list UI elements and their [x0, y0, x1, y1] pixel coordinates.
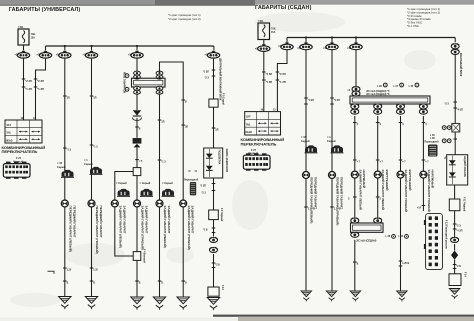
svg-text:B: B	[357, 263, 359, 265]
front clearance lamp right	[88, 200, 103, 254]
relay pin bottom-right	[156, 86, 163, 94]
scan top band	[0, 0, 474, 5]
combination switch (универсал)	[5, 118, 42, 143]
svg-text:ПЕРЕДНИЙ ГАБАРИТ: ПЕРЕДНИЙ ГАБАРИТ	[340, 177, 344, 209]
svg-text:*1 ЗП: *1 ЗП	[279, 80, 286, 84]
svg-text:× Серый: × Серый	[116, 181, 127, 185]
svg-text:1.25 B: 1.25 B	[308, 208, 315, 210]
svg-text:B: B	[139, 128, 141, 130]
junction F14	[208, 285, 224, 296]
svg-text:ПЕРЕДНИЙ ГАБАРИТ: ПЕРЕДНИЙ ГАБАРИТ	[99, 206, 103, 238]
combination switch (седан)	[245, 110, 281, 135]
relay terminals	[123, 72, 129, 93]
junction J1	[133, 168, 141, 176]
connector under fuse (седан)	[255, 44, 270, 51]
connector x1 gray (front right)	[84, 158, 103, 174]
svg-text:*1 ЗЛ: *1 ЗЛ	[308, 100, 314, 102]
svg-text:OFF: OFF	[7, 125, 12, 127]
svg-text:ЦЕНТРАЛЬНЫЙ МОНТАЖНЫЙ БЛОК: ЦЕНТРАЛЬНЫЙ МОНТАЖНЫЙ БЛОК	[219, 58, 222, 101]
svg-text:× 16: × 16	[301, 135, 307, 139]
svg-text:F 4 Боковой: F 4 Боковой	[143, 249, 146, 263]
J/C5 output pin	[351, 232, 359, 237]
connector to rear lamp RH outer	[425, 135, 440, 157]
svg-text:F 5 Серый: F 5 Серый	[222, 93, 225, 105]
svg-text:1.25: 1.25	[93, 269, 98, 271]
svg-text:НАРУЖНЫЙ: НАРУЖНЫЙ	[362, 170, 366, 188]
wire rear lamp s3	[399, 116, 407, 171]
wire down x213	[203, 59, 215, 99]
wire to relay pin	[136, 59, 138, 73]
svg-text:*6: *6	[443, 157, 445, 160]
svg-text:L 32: L 32	[399, 236, 404, 238]
svg-text:*3 З: *3 З	[445, 103, 450, 105]
front lamp left (седан)	[303, 172, 318, 224]
svg-text:× 1: × 1	[327, 135, 331, 139]
wire fuse to connector	[263, 40, 265, 46]
wire rear lamp s4	[422, 116, 430, 171]
connector bus right end	[205, 46, 222, 101]
relay pin top-left	[134, 71, 141, 79]
wire to switch pin 1	[22, 59, 32, 120]
svg-text:ЗЛ: ЗЛ	[161, 121, 164, 123]
connector on drop x332	[323, 43, 338, 51]
svg-text:1.25 B: 1.25 B	[402, 263, 409, 265]
svg-text:*1 ЗП: *1 ЗП	[266, 80, 273, 84]
svg-text:*1 З: *1 З	[67, 149, 72, 151]
connector gray (rear right)	[140, 181, 154, 197]
svg-text:L 38: L 38	[377, 86, 382, 88]
svg-text:× 7: × 7	[425, 160, 429, 163]
svg-text:F 27: F 27	[16, 156, 22, 160]
svg-text:F 14: F 14	[221, 285, 224, 290]
svg-text:ГАБ.: ГАБ.	[19, 26, 25, 29]
wire to J/C5	[348, 178, 357, 220]
combination rear lamp unit	[443, 155, 468, 185]
J/C4 output pins 4	[419, 104, 427, 115]
svg-text:F 27: F 27	[251, 148, 257, 152]
side marker resistor	[209, 93, 225, 107]
svg-text:*2 Б: *2 Б	[456, 266, 461, 268]
svg-text:ЗАДНИЙ ГАБАРИТ ЛЕВЫЙ: ЗАДНИЙ ГАБАРИТ ЛЕВЫЙ	[381, 170, 385, 210]
wire to junction J2	[136, 207, 138, 252]
svg-text:ЗАДНИЙ ГАБАРИТ (ПРАВЫЙ): ЗАДНИЙ ГАБАРИТ (ПРАВЫЙ)	[187, 206, 191, 250]
svg-text:ЗАДНИЙ ГАБАРИТ (ПРАВЫЙ): ЗАДНИЙ ГАБАРИТ (ПРАВЫЙ)	[141, 206, 145, 250]
bus (седан)	[287, 36, 455, 38]
svg-text:НАРУЖНЫЙ: НАРУЖНЫЙ	[431, 170, 435, 188]
svg-text:1.25: 1.25	[67, 269, 72, 271]
connector pair B	[210, 247, 218, 252]
J/C4 output pins 2	[374, 104, 382, 115]
svg-text:B: B	[139, 282, 141, 284]
svg-text:ЗЛ: ЗЛ	[215, 129, 218, 131]
svg-text:*6 с VSC: *6 с VSC	[407, 24, 420, 28]
wire to ground 1	[63, 207, 72, 296]
rear lamp 3	[156, 200, 171, 248]
svg-text:*4 ЗП: *4 ЗП	[456, 229, 462, 232]
svg-text:*1 ЗП: *1 ЗП	[37, 87, 44, 91]
wire to ground s2	[330, 178, 341, 291]
junction F11	[449, 197, 465, 212]
svg-text:*4 ЗП: *4 ЗП	[457, 108, 463, 111]
svg-text:ГАБ.: ГАБ.	[259, 20, 265, 23]
junction F9	[209, 208, 224, 222]
connector on drop x356	[347, 43, 362, 51]
svg-text:ЗАДНИЙ ГАБАРИТ: ЗАДНИЙ ГАБАРИТ	[145, 206, 149, 234]
svg-text:L 36: L 36	[386, 236, 391, 238]
svg-text:З: З	[380, 124, 382, 126]
connector pair A	[210, 237, 218, 242]
wire front right lamp	[90, 59, 98, 201]
wire rear lamp s1	[353, 116, 361, 171]
svg-text:ЗАДНИЙ ГАБАРИТ: ЗАДНИЙ ГАБАРИТ	[167, 206, 171, 234]
connector gray (rear left)	[116, 181, 130, 197]
connector on drop x306	[297, 43, 312, 51]
switch caption	[2, 145, 46, 154]
svg-text:×10: ×10	[56, 54, 61, 57]
svg-text:Серый: Серый	[301, 139, 310, 143]
J/C5 input pin 1	[351, 218, 359, 223]
svg-text:Переходной: Переходной	[425, 141, 440, 144]
svg-text:З: З	[348, 198, 350, 200]
svg-text:*2 ЗЛ: *2 ЗЛ	[25, 79, 32, 83]
connector x1 gray (седан fr)	[327, 135, 344, 153]
connector x16 gray (front left)	[57, 161, 74, 177]
svg-text:*2 ЗЛ: *2 ЗЛ	[279, 72, 286, 76]
rear lamp 4	[180, 200, 195, 250]
connector gray (rear 3)	[162, 181, 175, 197]
svg-text:1.25 B: 1.25 B	[334, 208, 341, 210]
wire relay down	[136, 95, 138, 111]
wire to ground s1	[304, 178, 315, 291]
svg-text:ЗАДНИЙ ГАБАРИТ: ЗАДНИЙ ГАБАРИТ	[122, 206, 126, 234]
connector pair into J/C4	[348, 86, 361, 96]
rear lamp s3	[397, 170, 412, 212]
svg-text:ЗАМКА ЗАЖИГАНИЯ: ЗАМКА ЗАЖИГАНИЯ	[225, 149, 228, 173]
svg-text:*1 З: *1 З	[161, 161, 166, 163]
svg-text:×14: ×14	[417, 206, 422, 209]
svg-text:HEAD: HEAD	[6, 139, 13, 142]
svg-text:ПЕРЕКЛЮЧАТЕЛЬ: ПЕРЕКЛЮЧАТЕЛЬ	[241, 142, 277, 147]
svg-text:РЕЛЕ ГАБАРИТОВ: РЕЛЕ ГАБАРИТОВ	[123, 72, 126, 93]
wire stub rear s4	[417, 178, 425, 211]
svg-text:× Серый: × Серый	[162, 181, 173, 185]
noise filter	[133, 138, 142, 147]
svg-text:ЗЛ: ЗЛ	[67, 97, 70, 99]
svg-text:× 7: × 7	[357, 160, 361, 163]
connector F13 face	[424, 214, 447, 270]
svg-text:ПЕРЕКЛЮЧАТЕЛЬ: ПЕРЕКЛЮЧАТЕЛЬ	[2, 149, 38, 154]
wire	[212, 254, 220, 287]
svg-text:ЗАДНИЙ ГАБАРИТ: ЗАДНИЙ ГАБАРИТ	[191, 206, 195, 234]
svg-text:B: B	[185, 282, 187, 284]
ground 1	[59, 297, 71, 310]
diode check connector	[132, 110, 141, 120]
ground 3	[131, 297, 143, 310]
svg-text:*2 Б: *2 Б	[215, 265, 220, 267]
svg-text:× 7: × 7	[402, 160, 406, 163]
svg-text:× 5: × 5	[139, 160, 143, 163]
svg-text:15A: 15A	[271, 31, 276, 34]
svg-text:Переходной: Переходной	[184, 179, 199, 182]
svg-text:ГАБАРИТЫ (УНИВЕРСАЛ): ГАБАРИТЫ (УНИВЕРСАЛ)	[9, 7, 81, 13]
wire	[203, 220, 215, 237]
wire to ground 4	[158, 207, 164, 297]
wire front lamp right (седан)	[330, 38, 340, 172]
svg-text:B: B	[93, 282, 95, 284]
svg-text:ЗЛ: ЗЛ	[93, 97, 96, 99]
ground s2	[326, 291, 336, 301]
svg-text:*1 ЗП: *1 ЗП	[334, 100, 340, 102]
wire to ground s3	[353, 240, 359, 291]
tail relay box	[132, 78, 166, 87]
connector drop x64.8	[56, 46, 71, 58]
relay pin bottom-left	[134, 86, 141, 94]
svg-text:*3 З: *3 З	[456, 225, 461, 227]
svg-text:Серый: Серый	[84, 162, 93, 166]
wire	[453, 211, 463, 237]
wire fuse to connector	[23, 45, 25, 50]
svg-text:L 30: L 30	[409, 86, 414, 88]
ground s5	[449, 289, 459, 299]
wire relay to rear lamp 3	[158, 95, 166, 201]
junction J2	[133, 249, 145, 263]
svg-text:OFF: OFF	[246, 117, 251, 119]
fuse TAIL 15A (седан)	[258, 20, 277, 40]
svg-text:МОНТАЖНЫЙ БЛОК: МОНТАЖНЫЙ БЛОК	[459, 53, 462, 77]
connector x16 gray (седан fl)	[301, 135, 318, 153]
svg-text:*2 ЗЛ: *2 ЗЛ	[37, 79, 44, 83]
svg-text:*2 ЗЛ: *2 ЗЛ	[266, 72, 273, 76]
wire	[454, 132, 456, 155]
terminal rings L-series	[377, 83, 419, 88]
svg-text:× 1: × 1	[84, 158, 88, 162]
wire rear left to junction J2	[115, 207, 133, 256]
svg-text:ПЕРЕДНИЙ ГАБАРИТ: ПЕРЕДНИЙ ГАБАРИТ	[314, 177, 318, 209]
relay pin top-right	[156, 71, 163, 79]
svg-text:L 37: L 37	[393, 86, 398, 88]
svg-text:L 36: L 36	[430, 135, 435, 137]
svg-text:J/C №5 (СЕДАН): J/C №5 (СЕДАН)	[356, 239, 377, 243]
connector on bus left end (седан)	[278, 38, 293, 50]
svg-text:ЗАДНИЙ ГАБАРИТ ПРАВЫЙ: ЗАДНИЙ ГАБАРИТ ПРАВЫЙ	[427, 170, 431, 212]
svg-text:× 7: × 7	[380, 160, 384, 163]
connector gray (rear 4)	[184, 171, 199, 195]
front lamp right (седан)	[329, 172, 344, 226]
fuse TAIL 15A (универсал)	[18, 26, 36, 45]
svg-text:×4: ×4	[348, 89, 351, 92]
wire bus corner right	[454, 38, 456, 43]
ground s1	[301, 291, 311, 301]
svg-text:B: B	[185, 101, 187, 103]
wire front left lamp	[63, 59, 71, 201]
wire front lamp left (седан)	[304, 38, 314, 172]
scan speck	[48, 271, 55, 273]
svg-text:ГАБАРИТЫ (СЕДАН): ГАБАРИТЫ (СЕДАН)	[255, 5, 312, 11]
connector F27 label (седан)	[248, 148, 258, 155]
wire to ground 5	[181, 207, 187, 297]
wire bus to J/C4	[355, 38, 357, 87]
svg-text:B: B	[67, 282, 69, 284]
svg-text:L 38: L 38	[430, 138, 435, 140]
svg-text:× Серый: × Серый	[140, 181, 151, 185]
rear lamp left	[111, 200, 126, 248]
svg-text:*2 З: *2 З	[205, 77, 210, 79]
ground 2	[85, 297, 97, 310]
svg-text:ЗАДНИЙ ГАБАРИТ ПРАВЫЙ: ЗАДНИЙ ГАБАРИТ ПРАВЫЙ	[404, 170, 408, 212]
wire to switch pin 2 (седан)	[276, 50, 287, 112]
svg-text:ЗАДНИЙ ФОНАРЬ: ЗАДНИЙ ФОНАРЬ	[463, 156, 466, 177]
svg-text:*1 ЗЛ: *1 ЗЛ	[203, 71, 209, 73]
svg-text:ВНУТРЕННИЙ: ВНУТРЕННИЙ	[408, 170, 412, 191]
rear lamp right	[134, 200, 149, 250]
ground 5	[177, 297, 189, 310]
connector far right	[451, 43, 462, 76]
svg-text:ПЕРЕДНИЙ ГАБАРИТ (ПРАВЫЙ): ПЕРЕДНИЙ ГАБАРИТ (ПРАВЫЙ)	[95, 206, 99, 254]
svg-text:TAIL: TAIL	[271, 28, 277, 31]
ground 6	[207, 298, 219, 311]
svg-text:З: З	[402, 124, 404, 126]
wire rear lamp s2	[376, 116, 384, 171]
svg-text:*1 З: *1 З	[93, 146, 98, 148]
svg-text:HEAD: HEAD	[245, 131, 252, 134]
J/C4 output pins 3	[397, 104, 405, 115]
rear lamp s4	[420, 170, 435, 212]
svg-text:*1 Б: *1 Б	[203, 230, 208, 232]
wire to ground 3	[135, 260, 141, 297]
svg-text:Серый: Серый	[57, 165, 66, 169]
wire to ground 2	[90, 207, 99, 296]
J/C4 output pins 1	[351, 104, 359, 115]
svg-text:F 9 Черный: F 9 Черный	[220, 208, 223, 222]
svg-text:*2 З: *2 З	[202, 193, 207, 195]
svg-text:15A: 15A	[31, 36, 36, 39]
svg-text:F 13 Переходной разъем: F 13 Переходной разъем	[444, 220, 447, 249]
connector drop x91.5	[83, 46, 98, 58]
ground s3	[350, 291, 360, 301]
terminal rings L34	[442, 139, 457, 143]
wire to ground s4	[399, 178, 410, 291]
svg-text:ПОДСВЕТКА: ПОДСВЕТКА	[218, 150, 221, 165]
wire to switch pin 2	[34, 59, 46, 120]
svg-text:TAIL: TAIL	[31, 33, 37, 36]
svg-text:З: З	[380, 198, 382, 200]
junction connector J/C4	[350, 96, 430, 104]
rear lamp s2	[374, 170, 389, 210]
J/C5 labels	[356, 235, 408, 243]
front clearance lamp left	[61, 200, 76, 252]
svg-text:ЗЛ: ЗЛ	[185, 126, 188, 128]
connector F27 face (универсал)	[3, 162, 30, 179]
wire to switch pin 1 (седан)	[262, 52, 272, 112]
J/C5 input pin 2	[374, 218, 382, 223]
rear lamp s1	[351, 170, 366, 210]
wire	[135, 147, 143, 167]
ground 4	[153, 297, 165, 310]
connector under fuse	[15, 51, 30, 58]
scan bottom band	[213, 315, 474, 317]
bus (универсал)	[46, 45, 214, 47]
wire	[453, 244, 461, 274]
svg-text:ПЕРЕДНИЙ ГАБАРИТ (ЛЕВЫЙ): ПЕРЕДНИЙ ГАБАРИТ (ЛЕВЫЙ)	[310, 177, 314, 223]
svg-text:*1 ЗП: *1 ЗП	[200, 186, 206, 188]
wire below illumination	[200, 178, 215, 210]
svg-text:F 14: F 14	[463, 272, 466, 277]
svg-text:F 11 Черный: F 11 Черный	[462, 197, 465, 212]
svg-text:Серый: Серый	[327, 139, 336, 143]
svg-text:ПЕРЕДНИЙ ГАБАРИТ: ПЕРЕДНИЙ ГАБАРИТ	[72, 206, 76, 238]
branch to rear left lamp	[115, 172, 133, 201]
svg-text:*2 цвет проводов (тип 2): *2 цвет проводов (тип 2)	[168, 17, 201, 21]
svg-text:ЗАДНИЙ ГАБАРИТ (ЛЕВЫЙ): ЗАДНИЙ ГАБАРИТ (ЛЕВЫЙ)	[119, 206, 123, 248]
svg-text:ЗАДНИЙ ГАБАРИТ ЛЕВЫЙ: ЗАДНИЙ ГАБАРИТ ЛЕВЫЙ	[358, 170, 362, 210]
wire below unit	[454, 185, 456, 199]
svg-text:ПЕРЕДНИЙ ГАБАРИТ (ПРАВЫЙ): ПЕРЕДНИЙ ГАБАРИТ (ПРАВЫЙ)	[336, 177, 340, 225]
svg-text:ПЕРЕДНИЙ ГАБАРИТ (ЛЕВЫЙ): ПЕРЕДНИЙ ГАБАРИТ (ЛЕВЫЙ)	[69, 206, 73, 252]
wire down far right	[445, 55, 464, 124]
illumination unit	[204, 148, 228, 178]
svg-text:J/C №4 (СЕДАН) *5: J/C №4 (СЕДАН) *5	[366, 89, 390, 93]
svg-text:З: З	[357, 124, 359, 126]
noise capacitor	[451, 251, 458, 260]
junction connector J/C5	[351, 223, 384, 232]
svg-text:*1 ЗП: *1 ЗП	[25, 87, 32, 91]
wire below J1	[136, 176, 138, 201]
ground s4	[397, 291, 407, 301]
wire to J/C5 pin 2	[376, 178, 382, 220]
connector pair far right	[451, 237, 459, 242]
ticks rear feed	[181, 100, 188, 128]
svg-text:B: B	[161, 282, 163, 284]
connector on bus left end	[37, 46, 52, 58]
svg-text:× 16: × 16	[57, 161, 63, 165]
wire from relay to rear feed	[160, 62, 184, 200]
svg-text:TAIL: TAIL	[6, 132, 12, 135]
junction F14 (седан)	[449, 272, 466, 286]
wire	[135, 118, 141, 138]
connector F27 label	[13, 156, 23, 164]
switch caption (седан)	[241, 137, 285, 146]
connector drop x137	[128, 46, 143, 58]
svg-text:З: З	[425, 124, 427, 126]
connector F27 face (седан)	[243, 153, 270, 170]
svg-text:ВНУТРЕННИЙ: ВНУТРЕННИЙ	[385, 170, 389, 191]
terminal rings L35	[442, 123, 459, 132]
svg-text:TAIL: TAIL	[246, 123, 252, 126]
wire	[212, 107, 219, 148]
svg-text:ЗАДНИЙ ГАБАРИТ (ЛЕВЫЙ): ЗАДНИЙ ГАБАРИТ (ЛЕВЫЙ)	[163, 206, 167, 248]
